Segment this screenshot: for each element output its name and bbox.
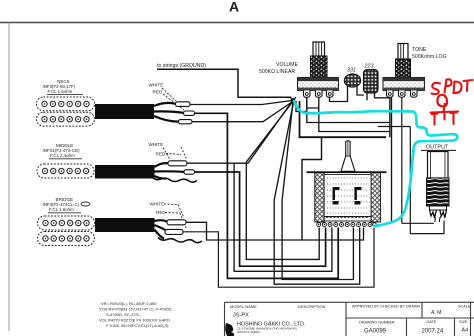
border frame top line: [0, 22, 474, 24]
sheet zone letter A: [229, 0, 239, 15]
wire middle red to switch lug 3: [195, 172, 326, 266]
title block size label: [459, 320, 468, 324]
svg-text:F.CL 2.4ohm: F.CL 2.4ohm: [50, 153, 75, 158]
neck red wire terminal: [184, 111, 195, 115]
svg-text:S-4700Ω, SC-2T/C,: S-4700Ω, SC-2T/C,: [106, 312, 141, 317]
neck white wire terminal: [176, 102, 191, 107]
svg-text:WHITE: WHITE: [149, 83, 164, 88]
output jack body: [428, 152, 449, 179]
bridge wire label WHITE: [150, 202, 185, 219]
svg-text:F.CL 1.6ohm: F.CL 1.6ohm: [49, 207, 74, 212]
notes parts list text: [99, 301, 173, 328]
potentiometer VOLUME lug 1: [304, 91, 311, 98]
pickup MIDDLE label: [43, 143, 83, 159]
svg-text:TONE: TONE: [412, 47, 427, 53]
potentiometer VOLUME label: [259, 62, 298, 75]
svg-text:223: 223: [364, 64, 374, 70]
capacitor C1 label 331: [347, 68, 356, 74]
middle pickup shielded cable: [95, 163, 185, 178]
middle white wire terminal: [168, 161, 187, 166]
wire ground node hook: [296, 101, 306, 112]
svg-text:RED: RED: [156, 210, 166, 215]
neck wire label RED: [153, 90, 185, 111]
svg-text:F 9-50L 39=20FCV,FX(17),A-60(,: F 9-50L 39=20FCV,FX(17),A-60(,0): [106, 323, 169, 328]
wire tone lug1 vertical: [389, 97, 391, 137]
output jack base plate: [430, 206, 447, 210]
title block date label: [427, 320, 437, 324]
title block header model name: [230, 304, 257, 309]
svg-text:APPROVED BY CHECKED BY DRA: APPROVED BY CHECKED BY DRAWN: [352, 305, 420, 309]
potentiometer VOLUME bushing: [311, 56, 328, 78]
switch SW1 bottom plate: [324, 217, 371, 222]
svg-text:500KΩ LINEAR: 500KΩ LINEAR: [259, 69, 295, 75]
wire bridge red to switch lug 8: [183, 228, 374, 288]
wire neck white to volume ground node: [190, 101, 292, 105]
potentiometer TONE lug 1: [387, 91, 394, 98]
wire jack tip lug left and up: [402, 222, 434, 224]
svg-text:331: 331: [347, 68, 356, 74]
title block date value: [422, 329, 444, 335]
title block logo: [225, 323, 234, 336]
potentiometer TONE lug 2: [399, 91, 406, 98]
switch SW1 lugs row: [317, 223, 377, 227]
wire tone lug1b vertical: [391, 97, 393, 223]
svg-text:WHITE: WHITE: [149, 142, 164, 147]
svg-text:VR= R0920(L), RC-450F 0-450: VR= R0920(L), RC-450F 0-450: [101, 301, 157, 306]
capacitor C2 legs: [367, 93, 389, 100]
wire tone to output jack hot: [378, 126, 410, 128]
wire volume lug1 jumper: [307, 97, 319, 108]
potentiometer VOLUME lug 3: [327, 91, 334, 98]
svg-text:DRAWING NUMBER: DRAWING NUMBER: [359, 321, 395, 325]
neck pickup shielded cable: [95, 103, 184, 122]
annotation red SPDT text letter T: [464, 80, 473, 91]
potentiometer VOLUME body: [298, 78, 339, 91]
potentiometer TONE bushing: [396, 59, 411, 78]
svg-text:NAGOYA JAPAN: NAGOYA JAPAN: [237, 330, 260, 334]
annotation red SPDT text letter S: [432, 79, 473, 94]
svg-text:RED: RED: [153, 90, 163, 95]
potentiometer VOLUME lug 2: [316, 91, 323, 98]
capacitor C2 body 223: [364, 70, 379, 94]
output jack label: [421, 145, 456, 151]
svg-text:to strings (GROUND): to strings (GROUND): [157, 63, 206, 69]
bridge wire label RED: [156, 210, 186, 228]
wire neck bare to volume ground node: [192, 102, 292, 122]
annotation red switch doodle terminals: [431, 112, 459, 125]
svg-text:JS-PX: JS-PX: [233, 313, 249, 319]
node GROUND to-strings label: [157, 63, 206, 69]
output jack tip lug: [430, 210, 437, 222]
pickup BRIDGE humbucker coil 1: [38, 216, 95, 230]
svg-text:OUTPUT: OUTPUT: [426, 145, 449, 151]
wire neck red to switch lug 4: [194, 113, 338, 278]
wire middle white to ground node and switch branch: [187, 102, 332, 272]
svg-text:SIZE: SIZE: [459, 320, 468, 324]
svg-text:DATE: DATE: [427, 320, 437, 324]
title block model value JS-PX: [233, 313, 249, 319]
capacitor C1 disc 331: [344, 74, 360, 87]
wire jack sleeve ground U: [410, 127, 444, 234]
potentiometer TONE body: [383, 78, 425, 91]
node volume casing ground junction: [290, 97, 296, 104]
title block approved value A.M.: [431, 310, 443, 316]
svg-text:YOS R4=P0(R3 157,R3=4T C), F-4: YOS R4=P0(R3 157,R3=4T C), F-4700Ω,: [99, 307, 173, 312]
middle wire label WHITE: [149, 142, 171, 160]
output jack threaded sleeve: [427, 178, 450, 206]
svg-text:WHITE: WHITE: [150, 202, 165, 207]
bridge bare braid wire: [158, 238, 202, 243]
annotation red SPDT text letter D: [454, 82, 462, 94]
svg-text:2007.24: 2007.24: [422, 329, 444, 335]
pickup NECK label: [43, 79, 84, 95]
svg-text:SCALE: SCALE: [458, 305, 471, 309]
capacitor C2 label 223: [364, 64, 374, 70]
neck wire label WHITE: [149, 83, 177, 102]
svg-text:500Kohm LOG: 500Kohm LOG: [412, 54, 447, 60]
wire bridge white to switch lug 7: [186, 222, 364, 240]
title block header description: [298, 304, 325, 309]
neck bare wire terminal: [179, 120, 193, 124]
wire bus ground thick to tone casing: [300, 101, 387, 137]
potentiometer TONE lug 3: [411, 91, 418, 98]
title block size value: [462, 328, 469, 334]
wire ground fan diagonal 3 to switch lug 1: [246, 102, 319, 259]
annotation red SPDT text letter P: [445, 79, 452, 92]
wire tone lug2 long vertical to jack: [401, 97, 403, 223]
svg-text:A4: A4: [462, 328, 469, 334]
pickup MIDDLE single coil: [37, 164, 94, 178]
svg-text:VOLUME: VOLUME: [276, 62, 298, 68]
switch SW1 interior contacts: [327, 178, 368, 213]
switch SW1 lug holes: [318, 224, 371, 225]
potentiometer TONE label: [412, 47, 447, 60]
bridge pickup shielded cable: [95, 218, 168, 239]
wire bus volume lug3 to tone: [319, 97, 389, 131]
middle red wire terminal: [184, 170, 195, 174]
wire to-strings ground to volume casing: [157, 69, 291, 97]
middle bare braid wire: [152, 177, 197, 182]
border frame left line: [8, 23, 10, 332]
pickup BRIDGE humbucker coil 2: [38, 232, 95, 246]
wire ground fan diagonal 2 to switch lug 6: [274, 102, 360, 284]
middle wire label RED: [156, 147, 188, 160]
bridge white wire terminal: [167, 220, 186, 225]
switch SW1 lever: [341, 141, 355, 172]
pickup NECK humbucker coil 1: [37, 97, 95, 111]
title block header scale: [458, 305, 471, 309]
capacitor C1 legs: [330, 86, 365, 102]
title block frame: [225, 302, 474, 336]
wire switch common drop: [302, 137, 322, 240]
svg-text:VOL R4270 R3272E F9 1000:KF 9-: VOL R4270 R3272E F9 1000:KF 9-4PO: [99, 318, 170, 323]
bridge red wire terminal: [165, 229, 183, 234]
wire ground fan diagonal 1 to switch lug 5: [282, 102, 353, 280]
pickup NECK humbucker coil 2: [37, 112, 95, 126]
potentiometer VOLUME shaft: [313, 42, 325, 56]
title block drawing number value: [364, 329, 387, 335]
annotation cyan hand-drawn wire: [294, 101, 457, 226]
output jack sleeve lug: [439, 210, 446, 222]
pickup BRIDGE label: [43, 197, 91, 213]
title block company name: [237, 322, 306, 334]
title block header approved checked: [352, 305, 420, 309]
potentiometer TONE shaft: [398, 44, 408, 60]
switch SW1 body frame: [307, 171, 387, 222]
svg-text:RED: RED: [156, 152, 166, 157]
svg-text:MODEL NAME: MODEL NAME: [230, 304, 257, 309]
svg-text:A: A: [229, 0, 239, 15]
svg-text:A. M.: A. M.: [431, 310, 443, 316]
annotation red switch doodle loop: [437, 95, 447, 112]
svg-text:F.CL 1.6ohm: F.CL 1.6ohm: [48, 89, 73, 94]
title block drawing number label: [359, 321, 395, 325]
svg-text:GA0099: GA0099: [364, 329, 387, 335]
svg-text:DESCRIPTION: DESCRIPTION: [298, 304, 325, 309]
wire bus volume lug2 to tone: [307, 97, 389, 122]
